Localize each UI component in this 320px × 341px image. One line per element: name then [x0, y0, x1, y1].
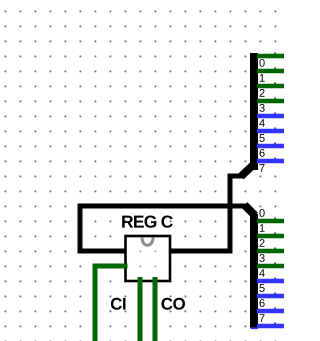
bus B1 spine [241, 53, 258, 177]
bus B1 bit line 7 [257, 158, 284, 164]
bus B1 bit line 0 [257, 53, 284, 59]
bus B2 bit line 1 [257, 233, 284, 239]
wire CI net horizontal [93, 264, 128, 269]
bus B1 bit label 0 [259, 59, 264, 67]
wire loop left edge [78, 204, 83, 254]
wire loop top edge [78, 204, 247, 209]
bus B2 bit line 3 [257, 263, 284, 269]
bus B1 bit label 7 [260, 164, 265, 172]
bus B1 bit label 1 [260, 74, 265, 82]
wire CI net vertical [93, 264, 98, 341]
wire right vertical segment [228, 174, 233, 254]
wire loop bottom edge [78, 249, 233, 254]
bus B1 bit label 3 [259, 104, 264, 112]
bus B2 bit label 2 [260, 239, 265, 247]
bus B1 bit line 4 [257, 113, 284, 119]
bus B2 bit label 3 [259, 254, 264, 262]
bus B1 bit label 5 [259, 134, 264, 142]
bus B1 bit line 1 [257, 68, 284, 74]
wire CI pin vertical [138, 277, 143, 341]
bus B2 bit label 1 [260, 224, 265, 232]
bus B2 bit line 0 [257, 218, 284, 224]
bus B1 bit label 6 [260, 149, 265, 157]
bus B2 bit line 7 [257, 323, 284, 329]
bus B2 bit line 6 [257, 308, 284, 314]
label CI [111, 298, 126, 310]
bus B1 bit line 6 [257, 143, 284, 149]
bus B1 bit label 4 [259, 119, 265, 127]
bus B2 bit label 7 [260, 314, 265, 322]
bus B1 bit line 2 [257, 83, 284, 89]
register REG C body [126, 236, 171, 281]
bus B2 bit label 5 [259, 284, 264, 292]
bus B2 bit label 4 [259, 269, 265, 277]
bus B2 spine [245, 205, 259, 328]
bus B1 bit line 5 [257, 128, 284, 134]
bus B2 bit line 2 [257, 248, 284, 254]
wire CO pin vertical [153, 277, 158, 341]
label REG C [122, 215, 173, 227]
bus B2 bit line 4 [257, 278, 284, 284]
register clock notch [142, 237, 153, 245]
wire jog from bus B1 to register loop [228, 174, 245, 179]
bus B2 bit line 5 [257, 293, 284, 299]
bus B1 bit label 2 [260, 89, 265, 97]
label CO [161, 298, 184, 310]
bus B2 bit label 0 [259, 209, 264, 217]
bus B2 bit label 6 [260, 299, 265, 307]
bus B1 bit line 3 [257, 98, 284, 104]
